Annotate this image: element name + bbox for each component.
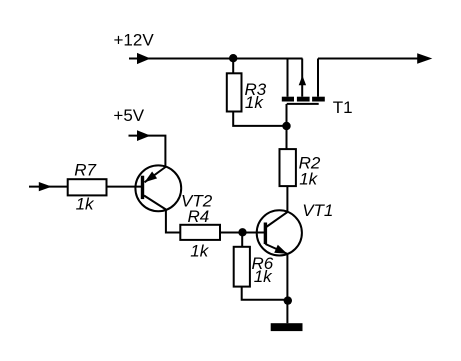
svg-text:+5V: +5V bbox=[113, 106, 144, 125]
svg-text:1k: 1k bbox=[76, 195, 95, 214]
svg-text:T1: T1 bbox=[333, 98, 353, 117]
svg-text:1k: 1k bbox=[254, 267, 273, 286]
svg-text:1k: 1k bbox=[299, 170, 318, 189]
svg-text:+12V: +12V bbox=[114, 31, 155, 50]
svg-text:R7: R7 bbox=[74, 161, 96, 180]
svg-text:VT1: VT1 bbox=[302, 201, 333, 220]
svg-text:R4: R4 bbox=[188, 207, 210, 226]
svg-text:1k: 1k bbox=[190, 242, 209, 261]
svg-text:1k: 1k bbox=[245, 93, 264, 112]
